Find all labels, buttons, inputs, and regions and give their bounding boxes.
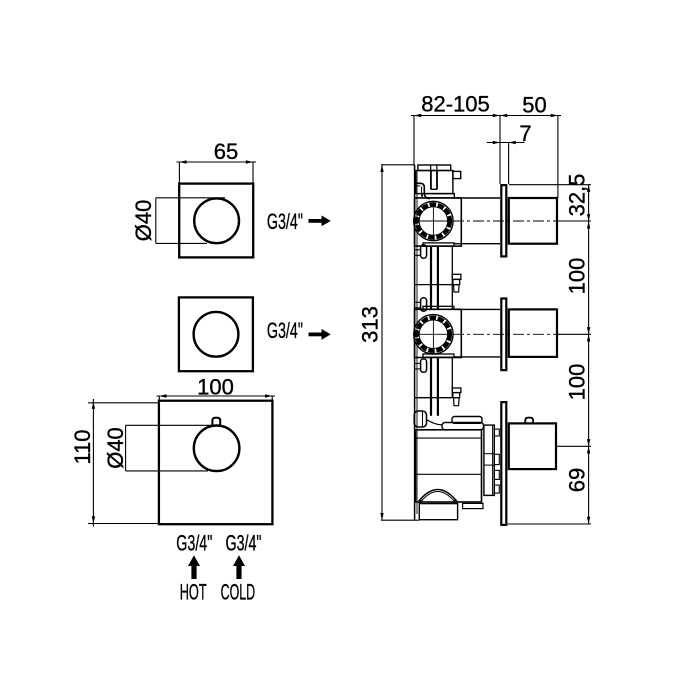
svg-text:G3/4": G3/4": [267, 209, 303, 234]
svg-text:110: 110: [70, 429, 95, 464]
svg-text:G3/4": G3/4": [176, 531, 212, 556]
svg-text:Ø40: Ø40: [103, 427, 128, 469]
svg-text:7: 7: [519, 121, 531, 146]
svg-text:65: 65: [214, 139, 238, 164]
svg-text:100: 100: [565, 364, 590, 401]
svg-text:Ø40: Ø40: [131, 200, 156, 242]
svg-text:69: 69: [565, 468, 590, 492]
svg-text:50: 50: [522, 93, 546, 118]
svg-text:82-105: 82-105: [421, 92, 490, 117]
svg-text:32,5: 32,5: [565, 174, 590, 217]
svg-text:100: 100: [197, 375, 234, 400]
svg-text:G3/4": G3/4": [226, 531, 262, 556]
svg-text:100: 100: [565, 258, 590, 295]
svg-text:313: 313: [358, 306, 383, 343]
svg-text:COLD: COLD: [221, 580, 256, 605]
svg-text:G3/4": G3/4": [267, 318, 303, 343]
svg-text:HOT: HOT: [180, 580, 207, 605]
